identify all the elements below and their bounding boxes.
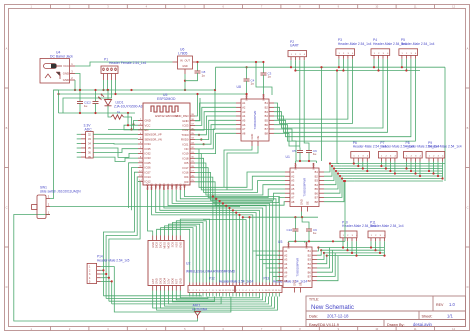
connector P10 Header-Male 1x4 (340, 220, 376, 241)
svg-text:desai.avin: desai.avin (413, 322, 433, 327)
svg-text:P13: P13 (264, 277, 270, 281)
wire C8 top lead (197, 62, 199, 68)
svg-text:GND: GND (178, 242, 182, 248)
svg-text:VCC: VCC (145, 123, 151, 127)
svg-text:IO33: IO33 (145, 156, 152, 160)
svg-text:DIO1: DIO1 (159, 241, 163, 248)
svg-text:IO14: IO14 (145, 175, 152, 179)
svg-text:B8: B8 (308, 279, 312, 283)
connector P4 Header-Male 1x4 (371, 38, 407, 59)
wire vertical x337 (336, 71, 338, 164)
svg-text:U2: U2 (186, 262, 190, 266)
svg-text:1u: 1u (313, 152, 317, 156)
svg-text:1/1: 1/1 (447, 314, 453, 319)
connector P8 Header-Male 1x4 (404, 141, 440, 162)
svg-text:Header-Male 2.54_1x4: Header-Male 2.54_1x4 (401, 42, 435, 46)
wire U1 A pins from feed lines (195, 149, 285, 187)
svg-text:VCCB: VCCB (305, 242, 309, 249)
svg-text:GND: GND (145, 119, 151, 123)
svg-text:D: D (467, 285, 469, 289)
wire resistor to gnd net (124, 117, 132, 130)
svg-text:IO4: IO4 (184, 175, 189, 179)
svg-text:B4: B4 (315, 183, 319, 187)
svg-text:TXD0: TXD0 (181, 133, 189, 137)
svg-text:1u: 1u (251, 82, 255, 86)
connector P6 Header-Male 1x4 (351, 141, 387, 162)
wire vertical x321.5 (321, 67, 323, 161)
svg-text:SCK: SCK (171, 242, 175, 248)
svg-text:IO0: IO0 (184, 180, 189, 184)
svg-text:P12: P12 (209, 277, 215, 281)
svg-text:EasyEDA V4.11.9: EasyEDA V4.11.9 (309, 323, 339, 327)
svg-text:B: B (467, 126, 469, 130)
svg-text:OE: OE (256, 135, 260, 139)
wire bus ESP32 bottom pin fan (184, 190, 279, 283)
wire left branch to SW1 pin3 (50, 90, 59, 199)
svg-text:C2: C2 (87, 101, 91, 105)
svg-text:GND: GND (293, 280, 297, 286)
svg-text:IO19: IO19 (182, 152, 189, 156)
svg-text:A8: A8 (242, 131, 246, 135)
svg-text:OE: OE (299, 282, 303, 286)
wire bundle line j9 to U3 supply (243, 216, 318, 218)
wire P2 pin4 long down (304, 60, 309, 147)
svg-text:IN: IN (180, 59, 183, 63)
wires P1 pins (103, 80, 105, 90)
svg-text:B2: B2 (315, 174, 319, 178)
wire bus ESP32 right to U8 A pins (195, 103, 236, 121)
svg-text:1u: 1u (313, 231, 317, 235)
junction P1 gnd rail (102, 89, 104, 91)
svg-text:OE: OE (306, 201, 310, 205)
wire U1 vcc rail (296, 160, 317, 162)
wire jack GND2 down (74, 80, 76, 90)
svg-text:RST: RST (174, 278, 178, 284)
connector U4 DC Barrel Jack (40, 51, 75, 84)
svg-text:IO18: IO18 (182, 156, 189, 160)
svg-text:VCCB: VCCB (312, 163, 316, 170)
wire C8 bottom lead elbow (185, 76, 198, 81)
svg-text:A7: A7 (284, 275, 288, 279)
svg-text:GND: GND (182, 65, 188, 68)
svg-text:Header-Male 2.54_1x4: Header-Male 2.54_1x4 (338, 42, 372, 46)
svg-text:B2: B2 (265, 105, 269, 109)
svg-text:A6: A6 (242, 123, 246, 127)
capacitor C4 (244, 76, 255, 86)
svg-text:SENSOR_VN: SENSOR_VN (145, 137, 162, 141)
wire U8 gnd stubs (224, 146, 252, 188)
svg-text:NC: NC (184, 147, 188, 151)
svg-text:VCCA: VCCA (294, 163, 298, 170)
svg-text:SENSOR_VP: SENSOR_VP (145, 133, 162, 137)
svg-text:GND: GND (300, 199, 304, 205)
svg-text:B4: B4 (308, 262, 312, 266)
wire U8 VCCB supply (263, 78, 265, 94)
wire U3 B pins up to P10 P11 rails (317, 248, 318, 252)
svg-text:B4: B4 (265, 114, 269, 118)
svg-text:UART: UART (290, 44, 299, 48)
connector P1 Header Female (101, 57, 146, 80)
wire C2 leads (95, 90, 97, 99)
svg-text:B5: B5 (265, 118, 269, 122)
wire rail y113 (59, 112, 136, 114)
wire ESP32 GND pin to LORA GND (148, 190, 153, 236)
wires ESP32 left pins to P14 columns (103, 172, 138, 296)
svg-text:Date:: Date: (309, 315, 318, 319)
svg-text:A: A (6, 47, 8, 51)
svg-text:A7: A7 (242, 127, 246, 131)
svg-text:A8: A8 (291, 200, 295, 204)
wire ESP32 GND_PAD up to rail (195, 94, 198, 116)
svg-text:B5: B5 (315, 187, 319, 191)
svg-text:IO2: IO2 (183, 183, 187, 188)
svg-text:DIO0: DIO0 (171, 277, 175, 284)
svg-text:A6: A6 (284, 270, 288, 274)
svg-text:A4: A4 (284, 262, 288, 266)
svg-text:B6: B6 (315, 191, 319, 195)
svg-text:A2: A2 (291, 174, 295, 178)
svg-text:DIO2: DIO2 (155, 241, 159, 248)
svg-text:A8: A8 (284, 279, 288, 283)
svg-text:B5: B5 (308, 266, 312, 270)
wire regulator gnd down to rail (184, 74, 186, 90)
wire C1 leads (79, 90, 81, 99)
wire P2 pin3 long down (299, 60, 301, 147)
svg-text:C: C (6, 206, 8, 210)
connector 3.3V ADC block (77, 124, 94, 160)
svg-text:A4: A4 (291, 183, 295, 187)
svg-text:IO25: IO25 (145, 161, 152, 165)
wire gnd net vertical x215 (214, 90, 216, 130)
wire U1 B pins to rails69 (324, 164, 339, 173)
rail y70.5 (296, 70, 420, 72)
switch SW1 slide switch (32, 186, 82, 219)
capacitor C6 (306, 148, 317, 157)
title block (306, 296, 466, 327)
svg-text:B8: B8 (315, 200, 319, 204)
svg-text:GND: GND (63, 72, 69, 76)
svg-text:GND: GND (63, 78, 69, 82)
svg-text:B8: B8 (265, 131, 269, 135)
svg-text:IO23: IO23 (182, 124, 189, 128)
svg-text:A3: A3 (291, 179, 295, 183)
wires P2 pins to rails (290, 60, 292, 67)
wire LED cathode to resistor (108, 106, 111, 117)
connector P5 Header-Male 1x4 (399, 38, 435, 59)
wire gnd net horizontal y129.5 (108, 129, 215, 131)
svg-text:C: C (467, 206, 469, 210)
junction regulator out (196, 61, 198, 63)
svg-text:GND: GND (155, 278, 159, 284)
regulator U6 L7805 (173, 48, 198, 75)
svg-text:RXD0: RXD0 (181, 138, 189, 142)
svg-text:REV: REV (436, 303, 444, 307)
svg-text:B7: B7 (308, 275, 312, 279)
wire U8 B7 B8 (274, 129, 296, 161)
svg-text:Header-Male 2.54_1x4: Header-Male 2.54_1x4 (428, 145, 462, 149)
svg-text:U8: U8 (237, 85, 241, 89)
svg-text:Sheet:: Sheet: (422, 315, 433, 319)
svg-text:A7: A7 (291, 196, 295, 200)
svg-text:D: D (6, 285, 8, 289)
junction jack gnd rail (74, 89, 76, 91)
wire vertical x445 (444, 67, 446, 181)
connector P3 Header-Male 1x4 (336, 38, 372, 59)
svg-text:1u: 1u (268, 75, 272, 79)
wires P14 to P12 bottom (101, 269, 104, 271)
svg-text:B2: B2 (308, 253, 312, 257)
svg-text:TITLE:: TITLE: (309, 298, 319, 302)
wire ESP32 left pins elbows into bundle (129, 163, 138, 208)
svg-text:B6: B6 (265, 123, 269, 127)
svg-text:B7: B7 (265, 127, 269, 131)
svg-text:B: B (6, 126, 8, 130)
svg-text:IO34: IO34 (145, 142, 152, 146)
wire rail y90 (54, 89, 216, 91)
svg-text:slide switch JS102011UAQN: slide switch JS102011UAQN (40, 189, 81, 193)
svg-text:IO27: IO27 (145, 170, 152, 174)
rails below P10 P11 (318, 247, 384, 249)
svg-text:B3: B3 (308, 258, 312, 262)
svg-text:A5: A5 (291, 187, 295, 191)
svg-text:GND: GND (151, 242, 155, 248)
svg-text:1u: 1u (202, 74, 206, 78)
svg-text:1k: 1k (117, 110, 121, 114)
capacitor C5 (292, 148, 303, 156)
wire 3.3V rail from regulator (198, 61, 264, 63)
svg-text:Header-Male 2.54_1x5: Header-Male 2.54_1x5 (97, 258, 130, 262)
wire gnd vertical x215 up to rail (215, 67, 217, 90)
svg-text:VCCA: VCCA (287, 242, 291, 249)
svg-text:GND: GND (250, 134, 254, 140)
wire stub x133.5 (134, 121, 139, 130)
IC U1 TXB0108PWR (285, 163, 324, 212)
capacitor C8 (195, 68, 206, 78)
wire ESP32 VCC left (128, 113, 138, 125)
wire jack GND3 down (75, 74, 80, 91)
svg-text:TXB0108PWR: TXB0108PWR (253, 111, 257, 130)
wire U3 supply rail (294, 217, 296, 226)
svg-text:DC Barrel Jack: DC Barrel Jack (50, 54, 73, 58)
svg-text:A6: A6 (291, 191, 295, 195)
svg-text:B6: B6 (308, 270, 312, 274)
junction P2 rail dots (290, 66, 292, 68)
wire SW1 net line (50, 206, 240, 208)
svg-text:NSS: NSS (174, 242, 178, 248)
junction TXD RXD staircase (198, 134, 200, 136)
wire bundle line j10 (203, 220, 246, 283)
svg-text:MOSI: MOSI (167, 242, 171, 249)
svg-text:DIO3: DIO3 (159, 277, 163, 284)
connector P12 Header-Male 1x14 (188, 277, 253, 293)
IC U8 TXB0108PWR (236, 94, 274, 146)
wire U3 A pins from bundle (253, 250, 278, 252)
IC U3 TXB0108PWR (278, 242, 317, 293)
wire EN loop (124, 125, 138, 130)
wire U1 gnd stub (301, 212, 303, 218)
capacitor C9 (306, 226, 317, 235)
svg-text:P1: P1 (104, 57, 108, 61)
capacitor C10 (287, 226, 299, 234)
connector P13 Header-Male 1x14 (236, 277, 308, 293)
svg-text:Header Female 2.54_1x4: Header Female 2.54_1x4 (109, 61, 146, 65)
svg-text:ADC: ADC (85, 127, 93, 131)
svg-text:GND: GND (182, 119, 188, 123)
svg-text:OUT: OUT (185, 59, 191, 63)
wire LORA ANT to antenna (153, 291, 195, 312)
svg-text:B7: B7 (315, 196, 319, 200)
junction rail dots (79, 89, 81, 91)
vertical from rails69 to U3 rail (344, 181, 346, 241)
wire jack VCC to 5V rail (75, 62, 173, 66)
svg-text:WIRELESS-LORA-RFM95RFSMD: WIRELESS-LORA-RFM95RFSMD (186, 270, 236, 274)
wire antenna gnd return (14, 215, 198, 322)
svg-text:IO16: IO16 (182, 171, 189, 175)
svg-text:GND_PAD: GND_PAD (175, 114, 188, 118)
rail y67 (216, 66, 446, 68)
svg-text:VCCB: VCCB (262, 94, 266, 101)
svg-text:DIO4: DIO4 (163, 277, 167, 284)
wire 5V elbow right (256, 62, 272, 95)
connector P9 Header-Male 1x4 (426, 141, 462, 162)
wire rail link (58, 90, 60, 113)
svg-text:IO22: IO22 (182, 128, 189, 132)
svg-text:A: A (467, 47, 469, 51)
svg-text:IO21: IO21 (182, 142, 189, 146)
P12 P13 pin stubs and numbers (189, 283, 281, 297)
capacitor C2 (87, 99, 99, 107)
svg-text:B3: B3 (265, 110, 269, 114)
svg-text:ANT: ANT (151, 278, 155, 284)
junction gnd net (130, 128, 132, 130)
connector P11 Header-Male 1x4 (368, 220, 404, 241)
wires P10 P11 pins to rails (342, 241, 344, 247)
wire U8 VCCA supply (246, 84, 248, 94)
svg-text:IO12: IO12 (145, 180, 152, 184)
svg-text:A3: A3 (242, 110, 246, 114)
wires ADC to ESP32 sensor pins (93, 133, 138, 135)
svg-text:C5: C5 (292, 149, 296, 153)
svg-text:A5: A5 (242, 118, 246, 122)
svg-text:TXB0108PWR: TXB0108PWR (296, 258, 300, 277)
svg-text:A2: A2 (242, 105, 246, 109)
capacitor C3 (261, 70, 272, 79)
svg-text:U1: U1 (286, 155, 290, 159)
svg-text:Header-Male 2.54_1x4: Header-Male 2.54_1x4 (370, 224, 404, 228)
svg-text:New Schematic: New Schematic (311, 304, 354, 311)
svg-text:A3: A3 (284, 258, 288, 262)
connector P14 Header-Male 1x5 (87, 255, 130, 284)
svg-text:IO32: IO32 (145, 152, 152, 156)
svg-text:A2: A2 (284, 253, 288, 257)
svg-text:IO5: IO5 (184, 161, 189, 165)
svg-text:TXB0108PWR: TXB0108PWR (303, 178, 307, 197)
svg-text:1u: 1u (84, 104, 88, 108)
svg-text:IO35: IO35 (145, 147, 152, 151)
svg-text:MISO: MISO (163, 242, 167, 249)
svg-text:VCC: VCC (63, 64, 69, 68)
wire bus verticals to P12 P13 (157, 229, 190, 282)
svg-text:U3: U3 (278, 240, 282, 244)
rail y94 3.3V net (59, 93, 247, 95)
svg-text:ESP32MOD: ESP32MOD (157, 97, 176, 101)
svg-text:A4: A4 (242, 114, 246, 118)
svg-text:2017-12-18: 2017-12-18 (327, 314, 349, 319)
resistor R1 1k (111, 110, 124, 119)
module U5 ESP32-WROOM (138, 93, 195, 190)
wire bus U8 B pins to nested lines (274, 59, 348, 119)
svg-text:IO26: IO26 (145, 166, 152, 170)
capacitor C1 (77, 99, 88, 109)
rails below P6-P9 (337, 163, 445, 165)
module U2 WIRELESS-LORA (148, 236, 236, 291)
wires P3 P4 P5 power pins (338, 59, 340, 67)
svg-text:3.3V: 3.3V (167, 278, 171, 284)
connector P2 UART (288, 40, 307, 60)
wire P14 pin1 (101, 267, 231, 312)
LED LED1 (98, 90, 142, 108)
svg-text:GND: GND (178, 278, 182, 284)
antenna ANT1 (192, 303, 208, 318)
svg-text:Drawn By:: Drawn By: (387, 323, 405, 327)
svg-text:C10: C10 (287, 228, 293, 232)
svg-text:ZJA-10UY/G500-A3: ZJA-10UY/G500-A3 (114, 104, 143, 108)
wire ESP32 GND right (195, 98, 200, 121)
svg-text:1.0: 1.0 (449, 302, 455, 307)
wires P6-P9 pins to rails (353, 162, 355, 164)
svg-text:B3: B3 (315, 179, 319, 183)
svg-text:EN: EN (145, 128, 149, 132)
svg-text:A5: A5 (284, 266, 288, 270)
svg-text:IO17: IO17 (182, 166, 189, 170)
connector P7 Header-Male 1x4 (378, 141, 414, 162)
svg-text:L7805: L7805 (178, 51, 188, 55)
wires LORA bottom pins to bundle (157, 291, 278, 311)
